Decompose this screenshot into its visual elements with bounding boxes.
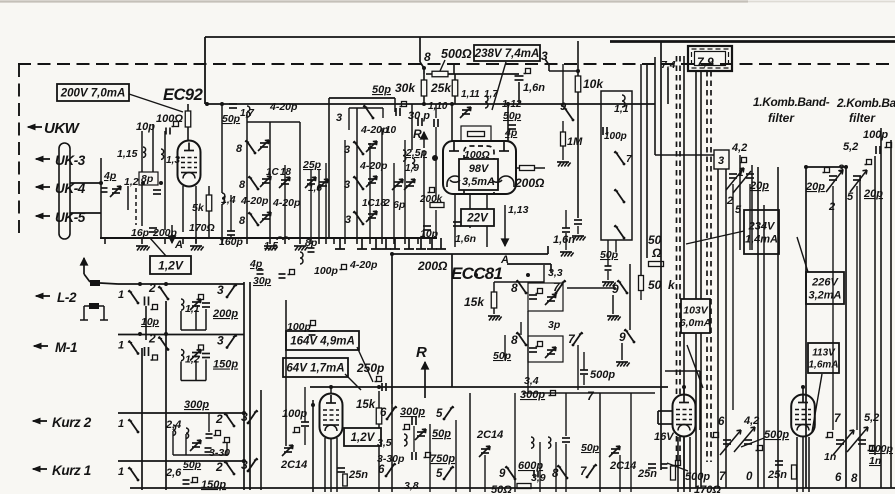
svg-text:1,12: 1,12 <box>502 99 522 110</box>
svg-text:4,2: 4,2 <box>743 415 759 427</box>
svg-text:6: 6 <box>718 416 725 428</box>
svg-text:2: 2 <box>726 195 733 207</box>
svg-text:1,1: 1,1 <box>185 303 200 315</box>
svg-text:98V: 98V <box>469 163 490 175</box>
svg-text:1,2V: 1,2V <box>351 432 376 444</box>
svg-text:5: 5 <box>436 468 443 480</box>
svg-text:15k: 15k <box>356 399 376 411</box>
svg-text:10: 10 <box>385 125 397 136</box>
svg-text:3: 3 <box>344 144 350 156</box>
svg-text:5k: 5k <box>192 202 205 214</box>
svg-text:3: 3 <box>217 283 224 297</box>
svg-text:5,2: 5,2 <box>864 412 879 424</box>
svg-text:30k: 30k <box>395 81 416 95</box>
svg-text:3: 3 <box>838 163 844 175</box>
svg-text:100p: 100p <box>314 265 339 277</box>
svg-text:6: 6 <box>378 464 385 476</box>
svg-text:1,6mA: 1,6mA <box>808 360 838 371</box>
svg-text:1,2: 1,2 <box>185 354 200 366</box>
svg-text:16V: 16V <box>654 431 675 443</box>
svg-text:filter: filter <box>768 111 795 125</box>
svg-text:8: 8 <box>424 50 431 64</box>
svg-text:50p: 50p <box>222 113 241 125</box>
svg-text:300p: 300p <box>184 399 209 411</box>
svg-text:1,5: 1,5 <box>264 241 278 252</box>
svg-text:50p: 50p <box>432 428 451 440</box>
svg-text:4-20p: 4-20p <box>272 197 301 209</box>
svg-text:500p: 500p <box>685 471 710 483</box>
svg-text:2.Komb.Band: 2.Komb.Band <box>836 96 895 110</box>
svg-text:3: 3 <box>718 155 724 167</box>
svg-text:1: 1 <box>118 340 124 352</box>
svg-text:64V 1,7mA: 64V 1,7mA <box>286 363 344 375</box>
svg-text:1,15: 1,15 <box>117 148 138 160</box>
svg-text:50p: 50p <box>503 110 522 122</box>
svg-text:1,4: 1,4 <box>221 194 236 206</box>
svg-text:2: 2 <box>383 197 390 209</box>
svg-text:3: 3 <box>344 179 350 191</box>
svg-text:2: 2 <box>148 332 156 346</box>
svg-text:200Ω: 200Ω <box>417 259 448 273</box>
svg-text:50: 50 <box>648 233 662 247</box>
svg-text:1,9: 1,9 <box>405 163 419 174</box>
svg-text:L-2: L-2 <box>57 290 77 305</box>
svg-text:1C18: 1C18 <box>362 198 386 209</box>
svg-text:7: 7 <box>719 471 726 483</box>
svg-text:100p: 100p <box>604 131 627 142</box>
svg-text:150p: 150p <box>213 359 238 371</box>
svg-text:2: 2 <box>148 281 156 295</box>
svg-text:filter: filter <box>849 111 876 125</box>
svg-text:3,2mA: 3,2mA <box>808 289 841 301</box>
svg-text:1M: 1M <box>567 136 583 148</box>
svg-text:7: 7 <box>834 413 841 425</box>
svg-text:EC92: EC92 <box>163 86 203 104</box>
svg-text:A: A <box>500 254 509 266</box>
svg-text:1n: 1n <box>869 455 881 467</box>
svg-text:2C14: 2C14 <box>280 459 307 471</box>
svg-text:25n: 25n <box>637 468 657 480</box>
svg-text:A: A <box>174 239 183 251</box>
svg-text:50: 50 <box>648 278 662 292</box>
svg-text:8: 8 <box>511 281 518 295</box>
svg-text:9: 9 <box>619 330 626 344</box>
svg-text:4-20p: 4-20p <box>240 195 269 207</box>
svg-text:25k: 25k <box>430 81 452 95</box>
svg-text:1,3: 1,3 <box>166 155 180 166</box>
svg-text:1,6n: 1,6n <box>553 234 575 246</box>
svg-text:103V: 103V <box>683 305 709 317</box>
svg-text:8: 8 <box>239 215 246 227</box>
svg-text:4-20p: 4-20p <box>349 259 378 271</box>
svg-text:200k: 200k <box>419 194 443 205</box>
svg-text:500p: 500p <box>590 369 615 381</box>
svg-text:2C14: 2C14 <box>476 429 503 441</box>
svg-text:3,4: 3,4 <box>524 375 539 387</box>
svg-text:1: 1 <box>118 418 124 430</box>
svg-text:3: 3 <box>345 214 351 226</box>
svg-text:3: 3 <box>217 334 224 348</box>
svg-text:100Ω: 100Ω <box>156 113 183 125</box>
svg-text:5: 5 <box>847 191 854 203</box>
svg-text:3: 3 <box>336 112 342 124</box>
svg-text:6p: 6p <box>393 199 406 211</box>
svg-text:1,7: 1,7 <box>484 89 498 100</box>
svg-text:1,6n: 1,6n <box>455 233 476 245</box>
svg-text:0: 0 <box>746 471 753 483</box>
svg-text:1.Komb.Band-: 1.Komb.Band- <box>753 95 830 109</box>
svg-text:4p: 4p <box>103 170 117 182</box>
svg-text:1,6: 1,6 <box>308 183 322 194</box>
svg-text:4p: 4p <box>504 127 518 139</box>
svg-text:Kurz 1: Kurz 1 <box>52 463 91 478</box>
svg-text:2C14: 2C14 <box>609 460 636 472</box>
svg-text:300p: 300p <box>400 406 425 418</box>
svg-text:UKW: UKW <box>44 120 81 137</box>
svg-text:22V: 22V <box>466 213 489 225</box>
svg-text:1: 1 <box>118 466 124 478</box>
svg-text:1,10: 1,10 <box>428 101 448 112</box>
svg-text:238V 7,4mA: 238V 7,4mA <box>474 48 540 60</box>
svg-text:164V 4,9mA: 164V 4,9mA <box>290 336 355 348</box>
svg-text:6: 6 <box>380 407 387 419</box>
svg-text:8: 8 <box>511 333 518 347</box>
svg-text:500Ω: 500Ω <box>441 47 472 61</box>
svg-text:8: 8 <box>851 473 858 485</box>
svg-text:2,6: 2,6 <box>165 467 182 479</box>
svg-text:4-20p: 4-20p <box>359 160 388 172</box>
svg-text:1,1: 1,1 <box>614 103 629 115</box>
svg-text:170Ω: 170Ω <box>189 222 215 234</box>
svg-text:1C: 1C <box>266 167 280 178</box>
svg-text:1,2V: 1,2V <box>158 258 184 272</box>
svg-text:25n: 25n <box>348 469 368 481</box>
svg-text:9: 9 <box>612 282 619 296</box>
svg-text:2: 2 <box>828 201 835 213</box>
svg-text:8: 8 <box>236 143 243 155</box>
svg-text:7,9: 7,9 <box>697 55 714 69</box>
svg-text:1: 1 <box>118 289 124 301</box>
svg-text:8: 8 <box>239 179 246 191</box>
svg-text:6: 6 <box>835 472 842 484</box>
svg-text:50p: 50p <box>493 350 512 362</box>
svg-text:3p: 3p <box>548 319 561 331</box>
svg-text:200V 7,0mA: 200V 7,0mA <box>60 88 126 100</box>
svg-text:9: 9 <box>499 468 506 480</box>
svg-text:5: 5 <box>436 408 443 420</box>
svg-text:200p: 200p <box>212 308 238 320</box>
svg-text:6,0mA: 6,0mA <box>680 317 712 329</box>
svg-text:25p: 25p <box>302 159 322 171</box>
svg-text:150p: 150p <box>201 479 226 491</box>
svg-text:R: R <box>416 344 427 361</box>
svg-text:100p: 100p <box>863 129 888 141</box>
svg-text:300p: 300p <box>520 389 545 401</box>
svg-text:226V: 226V <box>811 276 839 288</box>
svg-text:4-20p: 4-20p <box>269 101 298 113</box>
svg-text:50p: 50p <box>581 442 600 454</box>
svg-text:4,2: 4,2 <box>731 142 747 154</box>
svg-text:1n: 1n <box>824 451 836 463</box>
svg-text:5: 5 <box>735 204 742 216</box>
svg-text:Kurz 2: Kurz 2 <box>52 415 92 430</box>
svg-text:10p: 10p <box>141 316 160 328</box>
svg-text:3,8: 3,8 <box>404 480 419 492</box>
svg-text:20p: 20p <box>805 181 825 193</box>
svg-text:1: 1 <box>738 168 744 179</box>
svg-text:50p: 50p <box>372 84 391 96</box>
svg-text:3,5mA: 3,5mA <box>462 176 495 188</box>
svg-text:1,2: 1,2 <box>124 176 139 188</box>
svg-text:3: 3 <box>241 458 248 472</box>
svg-text:30p: 30p <box>253 275 272 287</box>
svg-text:200Ω: 200Ω <box>514 176 545 190</box>
svg-text:250p: 250p <box>356 361 384 375</box>
svg-text:7: 7 <box>626 154 632 165</box>
svg-text:1,6n: 1,6n <box>523 82 545 94</box>
svg-text:10k: 10k <box>583 77 604 91</box>
svg-text:M-1: M-1 <box>55 340 77 355</box>
svg-text:15k: 15k <box>464 295 485 309</box>
svg-text:2: 2 <box>215 460 223 474</box>
svg-text:50Ω: 50Ω <box>491 484 512 494</box>
svg-text:500p: 500p <box>764 429 789 441</box>
svg-text:2: 2 <box>215 412 223 426</box>
svg-text:5,2: 5,2 <box>843 141 858 153</box>
svg-text:100p: 100p <box>287 321 312 333</box>
svg-text:1,11: 1,11 <box>461 89 480 100</box>
svg-text:3: 3 <box>241 410 248 424</box>
svg-text:1,13: 1,13 <box>508 204 529 216</box>
svg-text:25n: 25n <box>767 469 787 481</box>
svg-text:3,5: 3,5 <box>377 437 392 449</box>
svg-text:4p: 4p <box>249 258 263 270</box>
svg-text:750p: 750p <box>430 453 455 465</box>
